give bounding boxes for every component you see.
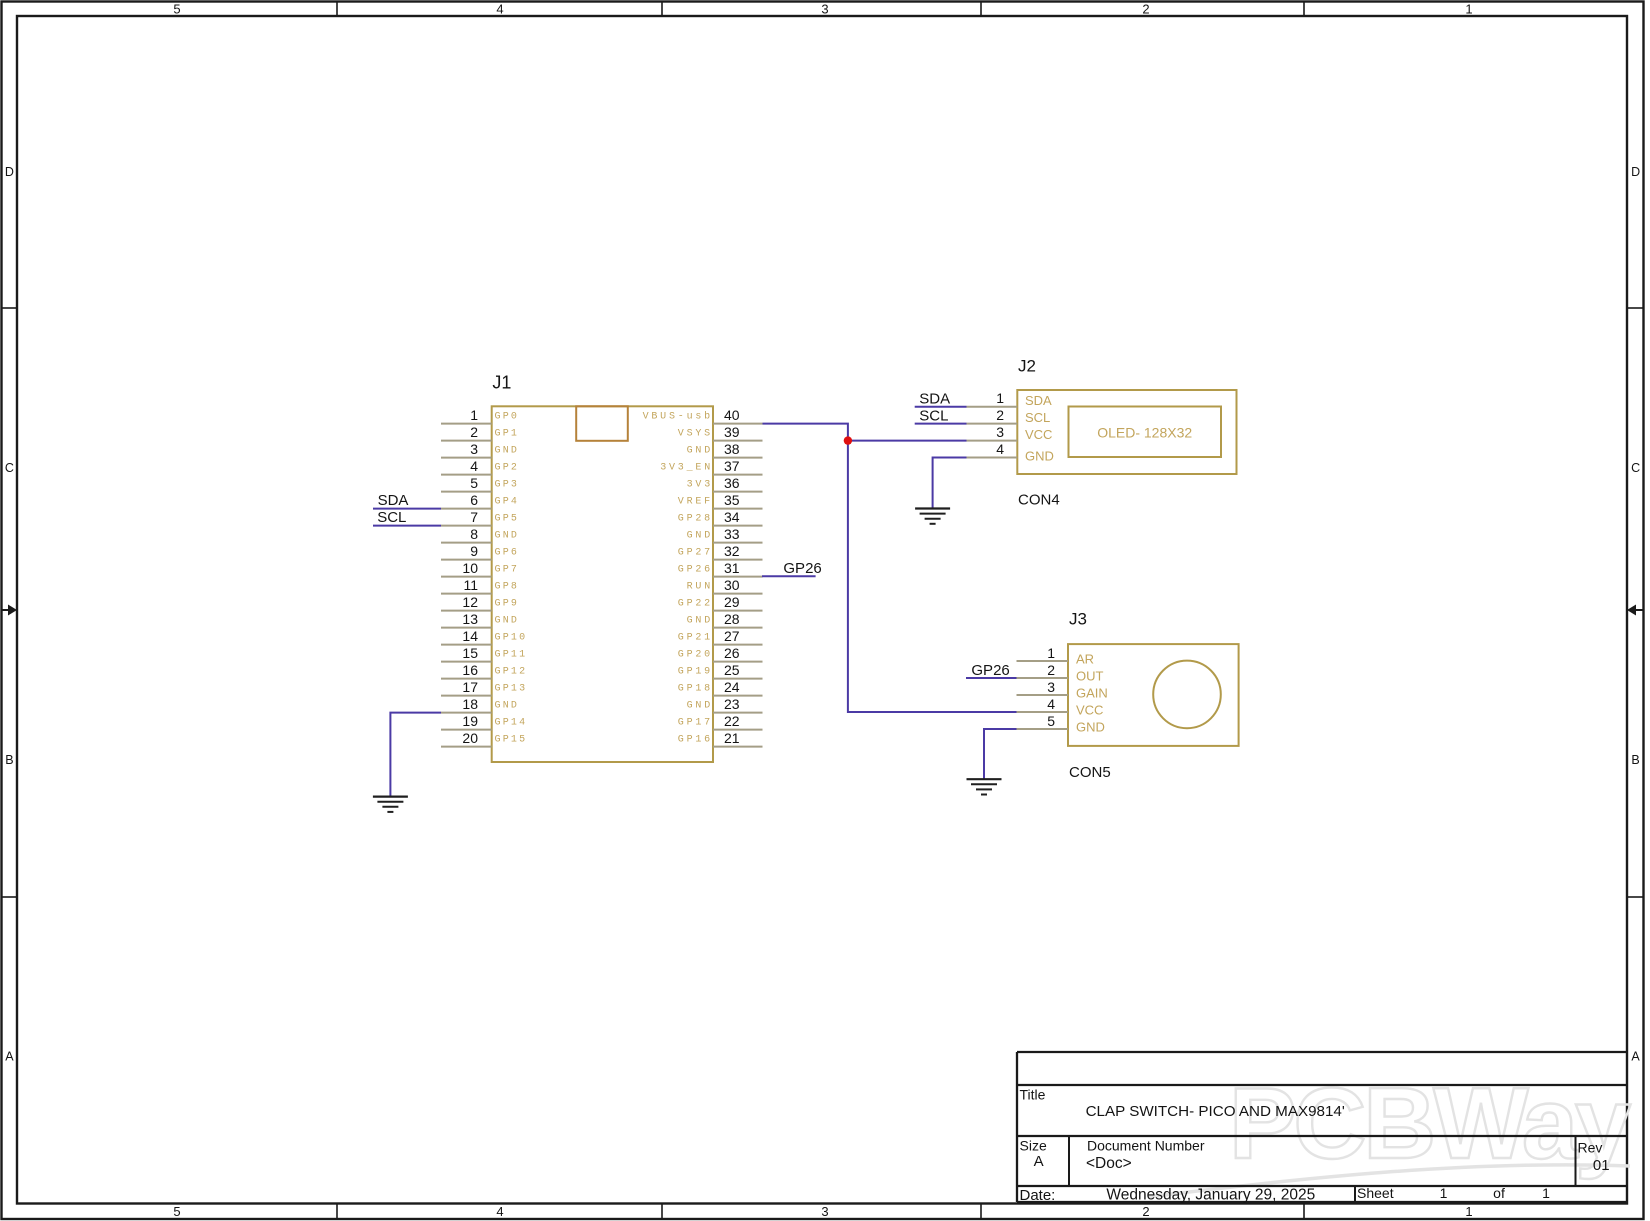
wire net SDA to J2 pin 1 bbox=[915, 406, 967, 408]
J1 pin 4 (GP2) bbox=[441, 458, 519, 475]
svg-text:SCL: SCL bbox=[1025, 410, 1050, 425]
svg-text:GP7: GP7 bbox=[495, 564, 520, 575]
svg-text:21: 21 bbox=[724, 730, 740, 746]
J1 pin 20 (GP15) bbox=[441, 730, 527, 747]
svg-text:GND: GND bbox=[687, 615, 713, 626]
svg-text:3V3: 3V3 bbox=[687, 479, 713, 490]
wire J2 pin 4 GND to ground bbox=[933, 458, 967, 509]
svg-text:C: C bbox=[1631, 461, 1640, 475]
J3 pin 5 (GND) bbox=[1017, 713, 1105, 735]
svg-text:2: 2 bbox=[1142, 2, 1149, 17]
J1 pin 25 (GP19) bbox=[678, 662, 763, 679]
wire J1 pin 18 GND to ground bbox=[390, 713, 441, 797]
J3 pin 1 (AR) bbox=[1017, 645, 1095, 667]
svg-text:Title: Title bbox=[1020, 1086, 1046, 1102]
svg-text:4: 4 bbox=[496, 1204, 503, 1219]
svg-text:GP20: GP20 bbox=[678, 649, 713, 660]
J1 pin 39 (VSYS) bbox=[678, 424, 763, 441]
svg-text:1: 1 bbox=[1465, 1204, 1472, 1219]
svg-text:3: 3 bbox=[996, 424, 1004, 440]
J3 pin 4 (VCC) bbox=[1017, 696, 1104, 718]
svg-text:GP26: GP26 bbox=[971, 662, 1009, 679]
svg-text:1: 1 bbox=[1465, 2, 1472, 17]
svg-text:GP0: GP0 bbox=[495, 411, 520, 422]
svg-text:3: 3 bbox=[821, 2, 828, 17]
svg-text:34: 34 bbox=[724, 509, 740, 525]
svg-text:<Doc>: <Doc> bbox=[1086, 1155, 1132, 1172]
svg-text:GAIN: GAIN bbox=[1076, 686, 1108, 701]
svg-text:32: 32 bbox=[724, 543, 740, 559]
J1 pin 29 (GP22) bbox=[678, 594, 763, 611]
ground (J2 pin 4) bbox=[915, 509, 950, 524]
svg-text:GND: GND bbox=[687, 445, 713, 456]
svg-text:A: A bbox=[5, 1050, 14, 1064]
J1 pin 30 (RUN) bbox=[687, 577, 763, 594]
J1 pin 22 (GP17) bbox=[678, 713, 763, 730]
J1 pin 28 (GND) bbox=[687, 611, 763, 628]
svg-text:GP26: GP26 bbox=[678, 564, 713, 575]
J1 pin 13 (GND) bbox=[441, 611, 519, 628]
connector J1 body (Raspberry Pi Pico) bbox=[492, 406, 713, 762]
J1 pin 37 (3V3_EN) bbox=[660, 458, 762, 475]
svg-text:Sheet: Sheet bbox=[1357, 1185, 1394, 1201]
svg-text:GP8: GP8 bbox=[495, 581, 520, 592]
J1 pin 35 (VREF) bbox=[678, 492, 763, 509]
svg-text:OLED- 128X32: OLED- 128X32 bbox=[1097, 424, 1192, 440]
J3 pin 3 (GAIN) bbox=[1017, 679, 1108, 701]
svg-text:CON5: CON5 bbox=[1069, 764, 1111, 781]
svg-text:D: D bbox=[1631, 165, 1640, 179]
svg-text:1: 1 bbox=[996, 390, 1004, 406]
svg-text:3: 3 bbox=[470, 441, 478, 457]
svg-text:VREF: VREF bbox=[678, 496, 713, 507]
svg-text:D: D bbox=[5, 165, 14, 179]
J3 pin 2 (OUT) bbox=[1017, 662, 1104, 684]
svg-text:OUT: OUT bbox=[1076, 669, 1104, 684]
svg-text:31: 31 bbox=[724, 560, 740, 576]
svg-text:GP2: GP2 bbox=[495, 462, 520, 473]
connector J3 body (MAX9814 mic module) bbox=[1068, 644, 1239, 746]
svg-text:GP14: GP14 bbox=[495, 717, 528, 728]
svg-text:Date:: Date: bbox=[1020, 1187, 1056, 1204]
microphone circle bbox=[1153, 661, 1221, 729]
svg-text:40: 40 bbox=[724, 407, 740, 423]
J1 pin 5 (GP3) bbox=[441, 475, 519, 492]
svg-text:35: 35 bbox=[724, 492, 740, 508]
svg-text:VBUS-usb: VBUS-usb bbox=[643, 410, 713, 422]
svg-text:SDA: SDA bbox=[378, 492, 409, 509]
svg-text:GP26: GP26 bbox=[783, 560, 821, 577]
J1 pin 10 (GP7) bbox=[441, 560, 519, 577]
svg-text:16: 16 bbox=[462, 662, 478, 678]
J1 pin 15 (GP11) bbox=[441, 645, 527, 662]
svg-text:GP4: GP4 bbox=[495, 496, 520, 507]
svg-text:4: 4 bbox=[996, 441, 1004, 457]
J2 pin 1 (SDA) bbox=[967, 390, 1053, 408]
svg-text:SCL: SCL bbox=[919, 407, 948, 424]
wire net SCL to J1 pin 7 bbox=[373, 525, 441, 527]
J1 pin 33 (GND) bbox=[687, 526, 763, 543]
svg-text:GP19: GP19 bbox=[678, 666, 713, 677]
svg-text:CON4: CON4 bbox=[1018, 492, 1060, 509]
svg-text:GP28: GP28 bbox=[678, 513, 713, 524]
PCBWay watermark (decorative) bbox=[1148, 1068, 1631, 1197]
svg-text:GND: GND bbox=[687, 530, 713, 541]
svg-text:AR: AR bbox=[1076, 652, 1094, 667]
J1 pin 19 (GP14) bbox=[441, 713, 527, 730]
svg-text:30: 30 bbox=[724, 577, 740, 593]
wire net GP26 stub at J1 pin 31 bbox=[762, 575, 816, 577]
svg-text:B: B bbox=[5, 753, 13, 767]
J1 pin 14 (GP10) bbox=[441, 628, 527, 645]
svg-text:9: 9 bbox=[470, 543, 478, 559]
connector J2 body (OLED header) bbox=[1017, 390, 1236, 474]
svg-text:1: 1 bbox=[1542, 1185, 1550, 1201]
svg-text:VCC: VCC bbox=[1076, 703, 1103, 718]
svg-text:4: 4 bbox=[470, 458, 478, 474]
svg-text:J3: J3 bbox=[1069, 609, 1087, 628]
svg-text:GP12: GP12 bbox=[495, 666, 528, 677]
svg-text:GND: GND bbox=[495, 445, 520, 456]
svg-text:GP13: GP13 bbox=[495, 683, 528, 694]
J2 pin 3 (VCC) bbox=[967, 424, 1053, 442]
svg-text:6: 6 bbox=[470, 492, 478, 508]
J1 pin 9 (GP6) bbox=[441, 543, 519, 560]
svg-text:25: 25 bbox=[724, 662, 740, 678]
svg-text:GP18: GP18 bbox=[678, 683, 713, 694]
svg-text:5: 5 bbox=[470, 475, 478, 491]
svg-text:VCC: VCC bbox=[1025, 427, 1052, 442]
svg-text:RUN: RUN bbox=[687, 581, 713, 592]
svg-text:2: 2 bbox=[996, 407, 1004, 423]
wire J3 pin 5 GND to ground bbox=[984, 729, 1017, 779]
svg-text:24: 24 bbox=[724, 679, 740, 695]
ground (J3 pin 5) bbox=[967, 779, 1002, 794]
svg-text:11: 11 bbox=[463, 577, 478, 593]
svg-text:26: 26 bbox=[724, 645, 740, 661]
J1 pin 16 (GP12) bbox=[441, 662, 527, 679]
svg-text:36: 36 bbox=[724, 475, 740, 491]
J1 pin 12 (GP9) bbox=[441, 594, 519, 611]
svg-text:3: 3 bbox=[1047, 679, 1055, 695]
svg-text:GP15: GP15 bbox=[495, 734, 528, 745]
svg-text:GND: GND bbox=[495, 700, 520, 711]
svg-text:5: 5 bbox=[1047, 713, 1055, 729]
svg-text:of: of bbox=[1493, 1185, 1505, 1201]
svg-text:4: 4 bbox=[1047, 696, 1055, 712]
svg-text:GND: GND bbox=[495, 530, 520, 541]
J1 usb notch bbox=[576, 406, 628, 441]
J1 pin 24 (GP18) bbox=[678, 679, 763, 696]
svg-text:8: 8 bbox=[470, 526, 478, 542]
J1 pin 23 (GND) bbox=[687, 696, 763, 713]
svg-text:27: 27 bbox=[724, 628, 740, 644]
svg-text:GND: GND bbox=[1025, 449, 1054, 464]
svg-text:2: 2 bbox=[1047, 662, 1055, 678]
svg-text:GP16: GP16 bbox=[678, 734, 713, 745]
svg-text:SDA: SDA bbox=[1025, 393, 1052, 408]
svg-text:2: 2 bbox=[470, 424, 478, 440]
wire net SCL to J2 pin 2 bbox=[915, 423, 967, 425]
J2 pin 2 (SCL) bbox=[967, 407, 1051, 425]
J1 pin 18 (GND) bbox=[441, 696, 519, 713]
svg-text:3: 3 bbox=[821, 1204, 828, 1219]
svg-text:VSYS: VSYS bbox=[678, 428, 713, 439]
svg-text:18: 18 bbox=[462, 696, 478, 712]
svg-text:GP1: GP1 bbox=[495, 428, 520, 439]
svg-text:J1: J1 bbox=[492, 372, 511, 392]
svg-text:14: 14 bbox=[462, 628, 478, 644]
svg-text:GP6: GP6 bbox=[495, 547, 520, 558]
J1 pin 17 (GP13) bbox=[441, 679, 527, 696]
ground (J1 pin 18) bbox=[373, 797, 408, 812]
svg-text:13: 13 bbox=[462, 611, 478, 627]
J1 pin 40 (VBUS-usb) bbox=[643, 407, 763, 424]
junction dot (VBUS/VCC net) bbox=[844, 436, 852, 444]
J1 pin 6 (GP4) bbox=[441, 492, 519, 509]
wire net GP26 to J3 pin 2 bbox=[966, 677, 1017, 679]
J1 pin 3 (GND) bbox=[441, 441, 519, 458]
svg-text:SCL: SCL bbox=[377, 509, 406, 526]
svg-text:12: 12 bbox=[462, 594, 478, 610]
svg-text:2: 2 bbox=[1142, 1204, 1149, 1219]
svg-text:23: 23 bbox=[724, 696, 740, 712]
svg-text:GP21: GP21 bbox=[678, 632, 713, 643]
svg-text:GP11: GP11 bbox=[495, 649, 528, 660]
svg-text:15: 15 bbox=[462, 645, 478, 661]
J1 pin 34 (GP28) bbox=[678, 509, 763, 526]
svg-text:1: 1 bbox=[470, 407, 478, 423]
svg-text:39: 39 bbox=[724, 424, 740, 440]
J1 pin 38 (GND) bbox=[687, 441, 763, 458]
svg-text:CLAP SWITCH- PICO AND MAX9814': CLAP SWITCH- PICO AND MAX9814' bbox=[1086, 1103, 1345, 1120]
J1 pin 1 (GP0) bbox=[441, 407, 519, 424]
svg-text:20: 20 bbox=[462, 730, 478, 746]
svg-text:B: B bbox=[1631, 753, 1639, 767]
svg-text:GND: GND bbox=[1076, 720, 1105, 735]
svg-text:29: 29 bbox=[724, 594, 740, 610]
wire branch to J2 VCC pin 3 bbox=[848, 440, 967, 442]
J1 pin 32 (GP27) bbox=[678, 543, 763, 560]
svg-text:GP3: GP3 bbox=[495, 479, 520, 490]
J1 pin 8 (GND) bbox=[441, 526, 519, 543]
svg-text:33: 33 bbox=[724, 526, 740, 542]
svg-text:1: 1 bbox=[1047, 645, 1055, 661]
svg-text:10: 10 bbox=[462, 560, 478, 576]
svg-text:GP22: GP22 bbox=[678, 598, 713, 609]
svg-text:GND: GND bbox=[687, 700, 713, 711]
svg-text:7: 7 bbox=[470, 509, 478, 525]
svg-text:GP5: GP5 bbox=[495, 513, 520, 524]
svg-text:Document Number: Document Number bbox=[1087, 1137, 1205, 1153]
J1 pin 2 (GP1) bbox=[441, 424, 519, 441]
svg-text:19: 19 bbox=[462, 713, 478, 729]
J1 pin 21 (GP16) bbox=[678, 730, 763, 747]
svg-text:GP17: GP17 bbox=[678, 717, 713, 728]
svg-text:22: 22 bbox=[724, 713, 740, 729]
svg-text:01: 01 bbox=[1593, 1157, 1610, 1174]
J1 pin 31 (GP26) bbox=[678, 560, 763, 577]
svg-text:5: 5 bbox=[173, 1204, 180, 1219]
svg-text:3V3_EN: 3V3_EN bbox=[660, 462, 713, 473]
title block (decorative) bbox=[1017, 1052, 1627, 1204]
svg-text:5: 5 bbox=[173, 2, 180, 17]
svg-text:38: 38 bbox=[724, 441, 740, 457]
svg-text:17: 17 bbox=[462, 679, 478, 695]
svg-text:A: A bbox=[1034, 1153, 1044, 1170]
wire VBUS net from J1 pin 40 down to J3 VCC bbox=[763, 424, 1017, 712]
J1 pin 36 (3V3) bbox=[687, 475, 763, 492]
svg-text:J2: J2 bbox=[1018, 356, 1036, 375]
J1 pin 11 (GP8) bbox=[441, 577, 519, 594]
svg-text:GP27: GP27 bbox=[678, 547, 713, 558]
svg-text:37: 37 bbox=[724, 458, 740, 474]
svg-text:Rev: Rev bbox=[1578, 1140, 1603, 1156]
svg-text:1: 1 bbox=[1440, 1185, 1448, 1201]
J1 pin 7 (GP5) bbox=[441, 509, 519, 526]
OLED-128X32 display box bbox=[1069, 407, 1222, 458]
svg-text:Size: Size bbox=[1020, 1137, 1047, 1153]
svg-text:28: 28 bbox=[724, 611, 740, 627]
J1 pin 27 (GP21) bbox=[678, 628, 763, 645]
svg-text:SDA: SDA bbox=[919, 391, 950, 408]
svg-text:Wednesday, January 29, 2025: Wednesday, January 29, 2025 bbox=[1106, 1187, 1315, 1204]
svg-text:C: C bbox=[5, 461, 14, 475]
svg-text:4: 4 bbox=[496, 2, 503, 17]
svg-text:GND: GND bbox=[495, 615, 520, 626]
svg-text:GP9: GP9 bbox=[495, 598, 520, 609]
wire net SDA to J1 pin 6 bbox=[373, 508, 441, 510]
svg-text:GP10: GP10 bbox=[495, 632, 528, 643]
svg-text:A: A bbox=[1631, 1050, 1640, 1064]
J1 pin 26 (GP20) bbox=[678, 645, 763, 662]
J2 pin 4 (GND) bbox=[967, 441, 1054, 464]
